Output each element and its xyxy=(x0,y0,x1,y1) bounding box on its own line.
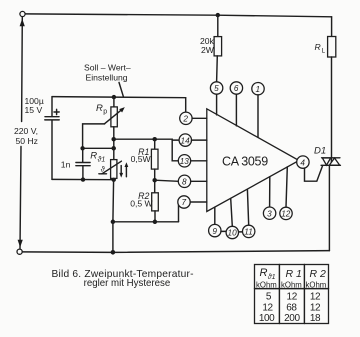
pin 7 xyxy=(178,196,207,208)
wire left vertical lower with arrow down xyxy=(18,147,23,249)
wire right vertical lower xyxy=(328,166,330,251)
svg-text:5: 5 xyxy=(266,292,272,303)
junction dot Rp top xyxy=(112,95,116,99)
pin 6 xyxy=(230,82,242,126)
svg-text:10: 10 xyxy=(228,229,238,238)
junction dot wiper right xyxy=(111,146,116,151)
pin 12 xyxy=(280,167,292,220)
svg-text:0,5W: 0,5W xyxy=(131,154,152,164)
svg-text:7: 7 xyxy=(182,198,187,207)
svg-text:8: 8 xyxy=(182,178,187,187)
svg-text:100: 100 xyxy=(259,313,275,324)
svg-text:R 1: R 1 xyxy=(286,268,302,280)
table data column 2 xyxy=(284,292,300,325)
svg-text:kOhm: kOhm xyxy=(256,280,277,289)
wire pin14 tap xyxy=(172,139,179,141)
junction dot R1 R2 xyxy=(152,178,157,183)
label pointer line Soll-Wert xyxy=(119,82,123,96)
svg-text:12: 12 xyxy=(262,302,273,313)
svg-text:200: 200 xyxy=(284,313,300,324)
pin 3 xyxy=(263,177,275,220)
pin 14 xyxy=(179,134,207,146)
svg-text:R 2: R 2 xyxy=(310,268,327,280)
svg-text:50 Hz: 50 Hz xyxy=(16,136,38,146)
capacitor C1 100u electrolytic xyxy=(45,97,59,179)
wire right vertical upper xyxy=(331,17,333,37)
triac D1 xyxy=(314,146,340,166)
junction dot wiper left xyxy=(80,146,84,150)
op-amp U1 CA3059 triangle xyxy=(207,109,299,212)
wire Rp wiper xyxy=(83,124,114,148)
table data column 3 xyxy=(310,291,321,324)
svg-text:4: 4 xyxy=(300,158,305,167)
pin 11 xyxy=(243,189,255,237)
svg-text:12: 12 xyxy=(287,292,298,303)
svg-text:Soll – Wert–: Soll – Wert– xyxy=(84,63,131,73)
svg-text:regler mit Hysterese: regler mit Hysterese xyxy=(84,278,171,289)
svg-text:68: 68 xyxy=(286,303,297,314)
resistor R2 xyxy=(130,191,158,222)
table box xyxy=(255,265,329,324)
wire bottom rail xyxy=(22,251,329,253)
wire thermistor down xyxy=(112,180,115,222)
svg-text:12: 12 xyxy=(310,302,321,313)
wire bottom analog rail y179 xyxy=(52,178,114,180)
svg-text:R: R xyxy=(260,267,268,279)
svg-text:R: R xyxy=(315,42,321,52)
svg-text:R: R xyxy=(90,151,97,162)
svg-text:L: L xyxy=(322,48,326,55)
wire left vertical upper with arrow up xyxy=(20,17,25,121)
wire right vertical middle xyxy=(331,57,333,158)
junction dot 1n bottom xyxy=(81,177,85,181)
wire gate to triac xyxy=(305,166,323,182)
wire mid vertical to bottom rail xyxy=(112,222,114,252)
pin 2 xyxy=(180,112,207,124)
wire to pin 8 xyxy=(155,180,179,181)
pin 10 xyxy=(226,199,238,239)
svg-text:6: 6 xyxy=(234,84,239,93)
pin 9 xyxy=(209,207,221,237)
svg-text:18: 18 xyxy=(310,313,321,324)
svg-text:kOhm: kOhm xyxy=(281,280,302,289)
junction dot rail222 left xyxy=(111,220,116,225)
svg-text:Einstellung: Einstellung xyxy=(86,73,128,83)
svg-text:ϑ1: ϑ1 xyxy=(98,157,106,164)
svg-text:1n: 1n xyxy=(61,160,71,170)
pin 4 xyxy=(297,156,309,168)
junction dot thermistor bottom xyxy=(111,177,116,182)
pin 5 xyxy=(210,82,222,115)
wire top rail xyxy=(25,14,331,17)
svg-text:3: 3 xyxy=(267,209,272,218)
label Soll-Wert-Einstellung xyxy=(84,63,131,83)
svg-text:1: 1 xyxy=(256,85,261,94)
table header Rth1 xyxy=(260,267,276,281)
resistor 20k xyxy=(200,15,222,82)
terminal top-left xyxy=(20,11,25,16)
wire inner top rail xyxy=(52,97,186,112)
svg-text:0,5 W: 0,5 W xyxy=(130,199,153,209)
wire node A to pins 14 13 xyxy=(114,139,179,161)
wire Rp bottom to thermistor xyxy=(113,127,115,160)
junction dot R2 bottom xyxy=(153,220,158,225)
svg-text:p: p xyxy=(103,109,107,116)
wire link 10-11 xyxy=(239,231,243,233)
pin 8 xyxy=(178,175,207,187)
svg-text:2: 2 xyxy=(182,115,188,124)
wire rail y222 xyxy=(113,221,179,223)
svg-text:11: 11 xyxy=(244,228,253,237)
svg-text:9: 9 xyxy=(212,227,217,236)
potentiometer Rp xyxy=(96,97,125,127)
table kOhm labels xyxy=(256,280,326,289)
svg-text:D1: D1 xyxy=(314,146,326,157)
svg-text:R: R xyxy=(96,103,103,114)
terminal bottom-left xyxy=(17,249,22,254)
svg-text:kOhm: kOhm xyxy=(306,280,327,289)
junction dot 20k top xyxy=(216,13,220,17)
svg-text:15 V: 15 V xyxy=(25,105,43,115)
svg-text:CA 3059: CA 3059 xyxy=(222,154,268,168)
svg-text:2W: 2W xyxy=(201,45,215,55)
wire link 9-10 xyxy=(221,230,226,232)
resistor RL xyxy=(315,37,336,58)
junction dot R1 top xyxy=(152,137,157,142)
svg-text:12: 12 xyxy=(310,291,321,302)
pin 13 xyxy=(178,155,207,167)
svg-text:13: 13 xyxy=(180,157,190,166)
junction dot node A xyxy=(111,137,116,142)
capacitor C2 1n xyxy=(61,148,90,179)
thermistor R-theta-1 xyxy=(90,151,128,180)
junction dot bottom rail xyxy=(111,250,116,255)
svg-text:12: 12 xyxy=(281,210,291,219)
resistor R1 xyxy=(131,139,158,193)
svg-text:5: 5 xyxy=(214,84,219,93)
pin 1 xyxy=(252,83,264,138)
table data column 1 xyxy=(259,292,275,325)
svg-text:220 V,: 220 V, xyxy=(14,126,38,136)
svg-text:14: 14 xyxy=(181,136,191,145)
wire pin7 drop xyxy=(178,205,180,222)
